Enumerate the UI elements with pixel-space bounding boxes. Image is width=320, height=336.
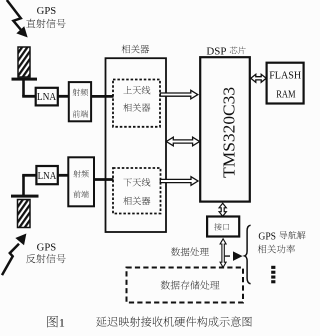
svg-text:1: 1 bbox=[59, 315, 65, 329]
bus arrow lower correlator to DSP bbox=[160, 177, 198, 186]
wire antenna A2 to LNA2 bbox=[22, 174, 36, 177]
interface block 接口 bbox=[207, 217, 239, 237]
label 相关器 (correlator) bbox=[122, 45, 150, 54]
block 数据存储处理 (data storage, dashed) bbox=[127, 268, 244, 303]
wire LNA1 to RF front-end 1 bbox=[58, 95, 69, 98]
bus arrow DSP to interface bbox=[219, 203, 226, 216]
antenna A1 (direct signal) bbox=[12, 47, 38, 81]
wire antenna A1 to LNA1 bbox=[22, 95, 36, 98]
ellipsis dashes (more outputs) bbox=[271, 266, 275, 284]
svg-text:GPS: GPS bbox=[258, 231, 276, 242]
output arrow (solid triangle) bbox=[233, 251, 243, 261]
svg-text:DSP: DSP bbox=[206, 46, 226, 58]
caption 图1 (figure number) bbox=[47, 316, 58, 328]
bus arrow upper correlator to DSP bbox=[160, 90, 198, 99]
block RF front-end 1 (射频前端) bbox=[69, 82, 91, 121]
DSP chip TMS320C33 box bbox=[200, 57, 250, 201]
GPS direct-signal lightning arrow bbox=[7, 0, 27, 37]
svg-text:GPS: GPS bbox=[37, 242, 57, 253]
label 反射信号 (reflected signal) bbox=[26, 254, 66, 263]
label 前端 (RF1 line2) bbox=[73, 110, 88, 117]
GPS reflected-signal lightning arrow bbox=[2, 234, 26, 275]
memory FLASH RAM box bbox=[267, 63, 304, 104]
block upper-antenna correlator (dashed) bbox=[113, 80, 160, 127]
label 直射信号 (direct signal) bbox=[26, 19, 65, 28]
wire antenna A2 up-lead bbox=[22, 175, 25, 195]
svg-text:FLASH: FLASH bbox=[269, 70, 301, 81]
dashed branch to outputs bbox=[225, 255, 233, 257]
svg-text:GPS: GPS bbox=[37, 6, 57, 17]
svg-text:RAM: RAM bbox=[276, 90, 296, 101]
brace for outputs bbox=[245, 225, 251, 284]
label 相关器 (lower box) bbox=[123, 197, 150, 205]
amplifier LNA1 box bbox=[36, 88, 58, 106]
block RF front-end 2 (射频前端) bbox=[68, 157, 94, 206]
label 芯片 bbox=[230, 47, 246, 55]
wire antenna A1 down-lead bbox=[22, 80, 25, 96]
label 下天线 bbox=[123, 178, 150, 186]
label 数据处理 (data processing) bbox=[171, 247, 209, 256]
svg-text:LNA: LNA bbox=[38, 171, 57, 182]
wire RF front-end 2 to lower correlator bbox=[94, 178, 114, 181]
wire RF front-end 1 to upper correlator bbox=[91, 95, 113, 98]
caption 延迟映射接收机硬件构成示意图 bbox=[96, 316, 252, 326]
label 射频 (RF2 line1) bbox=[73, 170, 88, 177]
svg-text:LNA: LNA bbox=[37, 92, 57, 103]
antenna A2 (reflected signal) bbox=[11, 195, 39, 228]
label 前端 (RF2 line2) bbox=[73, 191, 88, 198]
label 相关功率 bbox=[258, 245, 295, 254]
arrow interface to data-storage (bidirectional) bbox=[220, 239, 226, 268]
label 导航解 bbox=[279, 231, 305, 239]
bus arrow DSP to FLASH RAM bbox=[251, 74, 266, 82]
correlator outer box bbox=[106, 58, 167, 232]
amplifier LNA2 box bbox=[36, 166, 57, 184]
label 射频 (RF1 line1) bbox=[73, 89, 88, 96]
label 接口 bbox=[214, 223, 229, 230]
label 上天线 bbox=[123, 86, 150, 94]
bus arrow correlator-DSP bidirectional bbox=[166, 137, 199, 146]
wire LNA2 to RF front-end 2 bbox=[58, 174, 69, 177]
svg-text:TMS320C33: TMS320C33 bbox=[220, 87, 239, 178]
label 相关器 (upper box) bbox=[123, 103, 150, 111]
block lower-antenna correlator (dashed) bbox=[113, 168, 161, 214]
label 数据存储处理 bbox=[161, 281, 220, 290]
